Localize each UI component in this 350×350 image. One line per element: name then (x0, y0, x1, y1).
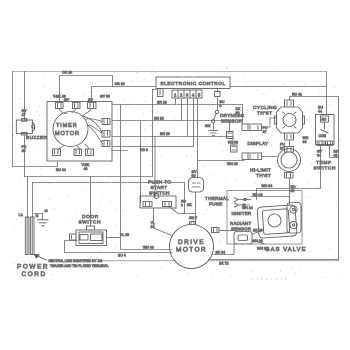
hi-limit top terminal (285, 147, 294, 153)
svg-text:9: 9 (220, 104, 222, 108)
svg-text:MOTOR: MOTOR (55, 131, 80, 137)
wire display box2 to hi-limit (262, 156, 277, 158)
wire buzzer bottom PK 45 (24, 135, 26, 177)
wire RD 41 (290, 97, 339, 101)
svg-text:ELECTRONIC CONTROL: ELECTRONIC CONTROL (161, 81, 226, 86)
wire thermal fuse to motor (195, 192, 197, 225)
svg-text:BK: BK (187, 203, 192, 207)
svg-text:G: G (45, 208, 48, 213)
timer terminal T2 (73, 103, 81, 109)
wire push switch right pad to motor (169, 207, 196, 214)
svg-text:SWITCH: SWITCH (79, 220, 102, 226)
drive motor M1 (170, 225, 214, 269)
node WH 24 label (242, 206, 253, 210)
dryness sensor contacts (212, 110, 219, 123)
node WH 26 lower label (257, 246, 268, 250)
svg-text:WH 43: WH 43 (143, 246, 154, 250)
node WH 34 right label (303, 136, 309, 144)
svg-text:WH 23: WH 23 (227, 162, 238, 166)
wire BU 44 right drop to temp switch (326, 72, 328, 115)
node G label (45, 208, 48, 213)
electronic control left pin (158, 89, 164, 97)
node BK 25 label (253, 229, 263, 233)
hi-limit bottom terminal (285, 173, 294, 179)
node GY 47 label (22, 109, 28, 117)
node DISPLAY label (248, 141, 269, 146)
display connector box 1 (242, 124, 262, 131)
node BR 15 label (160, 132, 170, 136)
node RD 41 label (292, 93, 302, 97)
node CYCLING TH'ST label (253, 105, 277, 117)
svg-text:RD 38: RD 38 (228, 141, 238, 145)
wire EC pin1 drop (175, 98, 177, 105)
wire EC left pin drop (153, 90, 157, 177)
node BU 9 label (220, 100, 225, 108)
timer terminal R1 (102, 119, 110, 125)
svg-text:FUSE: FUSE (209, 202, 222, 207)
display connector box 2 (242, 153, 262, 160)
svg-text:BK 72: BK 72 (219, 262, 229, 266)
node BU 4 label (118, 254, 126, 258)
svg-text:GAS VALVE: GAS VALVE (265, 247, 307, 253)
wire timer cam links (58, 109, 102, 150)
node BU 44 label right (318, 106, 323, 114)
svg-text:NO: NO (322, 118, 327, 122)
wire YL 35 door to timer net (107, 237, 121, 239)
node PUSH TO START SWITCH label (148, 180, 171, 197)
timer terminal R3 (102, 141, 110, 147)
svg-text:49: 49 (84, 167, 88, 171)
wire rail B N (33, 182, 185, 184)
cycling thermostat body (275, 107, 305, 133)
timer terminal T3 (88, 103, 97, 109)
svg-text:RD 41: RD 41 (292, 93, 302, 97)
gas valve body (257, 205, 297, 239)
svg-text:34: 34 (303, 140, 307, 144)
svg-text:35: 35 (291, 189, 295, 193)
svg-text:DRYNESS: DRYNESS (220, 113, 244, 118)
wire bottom border (100, 260, 339, 262)
node IGNITER label (232, 211, 252, 216)
wire WH 43 to motor (121, 249, 172, 251)
node TIMER MOTOR label (55, 123, 80, 137)
node AD 38 label (228, 141, 238, 145)
timer terminal B3 (86, 149, 94, 156)
igniter (235, 198, 252, 208)
svg-text:SENSOR: SENSOR (221, 119, 243, 124)
wire temp switch right pad BK 42 (330, 146, 339, 158)
svg-text:WH 34: WH 34 (262, 184, 273, 188)
svg-text:POWER: POWER (17, 264, 49, 271)
temp switch bottom pad right (326, 141, 333, 146)
svg-text:BR 16: BR 16 (157, 101, 167, 105)
node BK 72 label (219, 262, 229, 266)
wire N corner drop (32, 183, 34, 218)
node GY 50 top label (100, 95, 110, 99)
node POWER CORD label (17, 264, 49, 279)
wire BU 44 left run to timer (13, 161, 58, 167)
node GY 50 label (192, 170, 198, 178)
timer terminal B1 (53, 149, 61, 156)
neutral note arrow (35, 255, 47, 261)
svg-text:GN 7: GN 7 (189, 216, 197, 220)
gas valve flange (287, 203, 301, 234)
svg-text:YL 35: YL 35 (120, 233, 129, 237)
wire buzzer top GY 47 (24, 72, 26, 121)
node BK 42 label (334, 150, 339, 158)
node BU 44 label left (56, 168, 66, 172)
temp switch S1 (316, 115, 335, 145)
wire hi-limit to gas valve RD 35 (289, 178, 291, 206)
svg-text:BU 4: BU 4 (118, 254, 126, 258)
svg-text:BR 15: BR 15 (160, 132, 170, 136)
svg-text:BUZZER: BUZZER (26, 135, 48, 140)
node DRIVE MOTOR label (176, 239, 207, 254)
wire vertical x155 to push switch button (154, 137, 156, 198)
wire WH 34 to igniter (257, 146, 321, 200)
node BK 34 label (216, 251, 226, 255)
svg-text:HI-LIMIT: HI-LIMIT (250, 168, 271, 174)
svg-text:47: 47 (22, 113, 26, 117)
svg-text:37: 37 (263, 130, 267, 134)
node BN 16 label (154, 117, 164, 121)
svg-text:GY: GY (88, 98, 94, 102)
door switch S3 (70, 226, 107, 246)
node pin numbers 1 2 3 4 5 (174, 92, 201, 97)
timer box (47, 102, 112, 162)
node GN 7 label (189, 216, 197, 220)
display connector pad A (227, 132, 234, 139)
decorative dots bottom (252, 278, 287, 280)
svg-text:BK 34: BK 34 (216, 251, 226, 255)
svg-text:BN 16: BN 16 (154, 117, 164, 121)
wire RD 31 run (112, 150, 128, 152)
node THERMAL FUSE label (205, 196, 229, 207)
node BUZZER label (26, 135, 48, 140)
node OR 16 label (115, 82, 125, 86)
node RD 33 label (253, 193, 263, 197)
wire BK 72 motor to right (209, 259, 339, 261)
node Y-BK 49 top label (53, 95, 66, 99)
svg-text:TEMP: TEMP (316, 160, 332, 166)
wire rail B drop x184 (184, 183, 186, 214)
wire door switch tab up (90, 177, 92, 227)
node RD 3 label (140, 148, 148, 152)
node GY 34 label (317, 150, 323, 158)
node PU 37 left label (263, 126, 268, 134)
svg-text:CORD: CORD (22, 271, 47, 278)
node DK 30 label (236, 107, 242, 115)
node PU 37 bottom label (280, 143, 285, 151)
svg-text:RD 3: RD 3 (140, 148, 148, 152)
wire L1 corner drop (27, 177, 29, 218)
hi-limit thermostat (278, 149, 301, 172)
node GAS VALVE label (265, 247, 307, 253)
node RADIANT SENSOR label (230, 221, 251, 232)
svg-text:45: 45 (22, 149, 26, 153)
svg-text:CYCLING: CYCLING (253, 105, 277, 111)
svg-text:30: 30 (236, 111, 240, 115)
svg-text:IGNITER: IGNITER (232, 211, 252, 216)
svg-text:L1: L1 (19, 212, 24, 217)
wire BU 4 door to motor (65, 241, 173, 253)
node L1 label (19, 212, 24, 217)
wire BR 16 run (112, 105, 243, 125)
wire vertical x140 to push switch (140, 121, 142, 203)
ground power cord (38, 220, 49, 226)
wire EC pin2 drop (181, 98, 183, 121)
svg-text:50: 50 (192, 174, 196, 178)
node RD 3 BK 3 labels (181, 200, 192, 208)
node DOOR SWITCH label (79, 214, 102, 226)
electronic control U1 (156, 77, 230, 89)
node GN label (205, 124, 211, 128)
timer terminal B2 (74, 149, 82, 156)
radiant sensor (234, 232, 252, 245)
svg-text:START: START (151, 185, 168, 191)
svg-text:RD 33: RD 33 (253, 193, 263, 197)
node Y-BK 49 bottom label (82, 163, 91, 171)
svg-text:TH'ST: TH'ST (256, 173, 271, 179)
wire RD 33 (251, 196, 290, 198)
push to start switch S2 (140, 194, 176, 208)
display connector pad B (231, 145, 238, 152)
wire display box1 to cycling (262, 118, 277, 127)
wire push switch left pad YL 34 (154, 208, 172, 235)
electronic control pin strip 1-5 (172, 90, 202, 98)
wire timer leaf to cycling (83, 116, 102, 133)
node HI-LIMIT TH'ST label (250, 168, 271, 180)
wire left border (12, 72, 14, 167)
svg-text:GN: GN (205, 124, 211, 128)
wire dryness sensor RD 9 (217, 97, 219, 111)
wire WH 23 run (198, 160, 245, 161)
burner assembly box (227, 191, 302, 245)
node YL 34 label (151, 221, 155, 229)
svg-text:TH'ST: TH'ST (257, 111, 272, 117)
timer terminal T1 (56, 103, 64, 109)
wire vertical x123 net (120, 105, 122, 250)
svg-text:GY 50: GY 50 (100, 95, 110, 99)
temp switch bottom pad left (317, 141, 324, 146)
ground dryness (209, 131, 218, 136)
node PK 45 label (22, 145, 27, 153)
svg-text:3: 3 (181, 204, 183, 208)
svg-text:BU 44: BU 44 (56, 168, 66, 172)
wire BK 34 motor to gas valve (212, 244, 235, 255)
node NO COM labels (319, 118, 327, 139)
svg-text:OR 20: OR 20 (62, 71, 72, 75)
node N label (36, 213, 39, 218)
svg-text:OR 16: OR 16 (115, 82, 125, 86)
svg-text:RADIANT: RADIANT (230, 221, 251, 226)
wire EC pin5 drop GY 50 (197, 98, 199, 178)
svg-text:MOTOR: MOTOR (176, 247, 207, 254)
wire cycling to hi-limit PU 37 (289, 140, 291, 147)
buzzer (16, 119, 34, 135)
drive motor terminal BU 30 (212, 228, 220, 233)
svg-text:DRIVE: DRIVE (178, 239, 205, 246)
node BR 16 label (157, 101, 167, 105)
wire radiant sensor stubs (252, 231, 264, 244)
wire BU 30 stub (219, 230, 234, 232)
wire BN 16 run (112, 121, 230, 132)
node RD 35 label (291, 185, 297, 193)
svg-text:THERMAL: THERMAL (205, 196, 229, 201)
wire OR 16 run (60, 76, 327, 103)
svg-text:SWITCH: SWITCH (149, 191, 170, 197)
svg-text:GY: GY (64, 98, 70, 102)
timer motor (53, 112, 88, 147)
svg-text:SWITCH: SWITCH (314, 166, 337, 172)
thermal fuse F1 (189, 178, 204, 193)
wire ground stub G (34, 214, 43, 220)
node TEMP SWITCH label (314, 160, 337, 172)
node DRYNESS SENSOR label (220, 113, 244, 124)
node GY 47 timer label (64, 98, 94, 102)
wire right border BK 42 down (338, 97, 340, 261)
svg-text:42: 42 (334, 154, 338, 158)
gas valve coil circle (268, 214, 281, 227)
node WH 23 label (227, 162, 238, 166)
svg-text:34: 34 (151, 225, 155, 229)
cycling thermostat top terminal (285, 100, 294, 107)
wire EC pin4 drop (193, 98, 195, 147)
svg-text:TIMER: TIMER (56, 123, 78, 129)
wire RD 3 run (112, 146, 193, 148)
wire BR 15 run (112, 137, 233, 146)
electronic control TAB pad (215, 89, 221, 97)
drive motor top terminal (190, 222, 196, 226)
power cord plug L1 prong (25, 217, 29, 255)
timer terminal R2 (102, 131, 110, 138)
wire rail A L1 (25, 176, 153, 178)
wire dryness sensor to ground (213, 123, 215, 131)
node WH 26 label (252, 239, 263, 243)
node WH 34 mid label (262, 184, 273, 188)
power cord plug N prong (30, 217, 34, 255)
svg-text:44: 44 (318, 110, 322, 114)
cycling thermostat bottom terminal (285, 133, 294, 140)
node neutral note text (49, 259, 109, 268)
wire top border OR 20 (13, 71, 327, 73)
node ELECTRONIC CONTROL label (161, 81, 226, 86)
svg-text:DISPLAY: DISPLAY (248, 141, 269, 146)
node WH 43 label (143, 246, 154, 250)
node OR 20 label (62, 71, 72, 75)
wire EC pin3 drop (187, 98, 189, 137)
node YL 35 label (120, 233, 129, 237)
